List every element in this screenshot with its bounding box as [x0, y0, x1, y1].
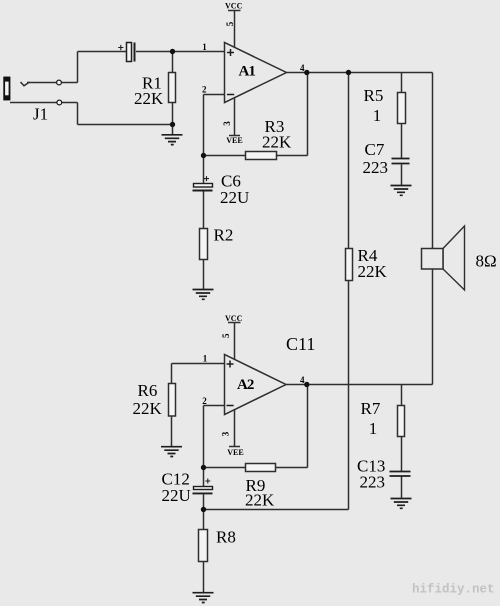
- svg-text:1: 1: [202, 42, 207, 52]
- svg-text:223: 223: [360, 473, 386, 492]
- svg-text:223: 223: [363, 158, 389, 177]
- svg-text:VEE: VEE: [227, 448, 243, 457]
- svg-text:3: 3: [221, 431, 231, 436]
- svg-text:2: 2: [202, 85, 207, 95]
- svg-text:22U: 22U: [220, 188, 249, 207]
- svg-text:VCC: VCC: [225, 1, 243, 10]
- svg-text:C11: C11: [286, 334, 315, 354]
- svg-text:22K: 22K: [134, 89, 164, 108]
- svg-text:22U: 22U: [162, 486, 191, 505]
- svg-text:R8: R8: [216, 528, 236, 547]
- svg-text:5: 5: [221, 333, 231, 338]
- svg-text:A1: A1: [239, 64, 256, 80]
- svg-text:C7: C7: [365, 140, 385, 159]
- svg-text:2: 2: [202, 396, 207, 406]
- svg-text:1: 1: [369, 419, 378, 438]
- svg-text:VEE: VEE: [226, 136, 242, 145]
- svg-text:22K: 22K: [245, 491, 275, 510]
- svg-text:1: 1: [373, 106, 382, 125]
- svg-text:hifidiy.net: hifidiy.net: [412, 583, 495, 597]
- svg-text:VCC: VCC: [225, 314, 243, 323]
- svg-text:22K: 22K: [133, 399, 163, 418]
- svg-text:R2: R2: [214, 226, 234, 245]
- svg-text:A2: A2: [237, 377, 254, 393]
- svg-text:1: 1: [203, 354, 208, 364]
- svg-text:4: 4: [300, 375, 305, 385]
- svg-text:R6: R6: [138, 381, 158, 400]
- svg-text:22K: 22K: [262, 133, 292, 152]
- svg-text:22K: 22K: [358, 262, 388, 281]
- svg-text:8Ω: 8Ω: [476, 252, 497, 271]
- svg-text:5: 5: [225, 21, 235, 26]
- svg-text:R7: R7: [361, 399, 381, 418]
- svg-text:J1: J1: [33, 105, 48, 124]
- svg-text:R5: R5: [364, 86, 384, 105]
- svg-text:4: 4: [300, 63, 305, 73]
- svg-text:3: 3: [222, 121, 232, 126]
